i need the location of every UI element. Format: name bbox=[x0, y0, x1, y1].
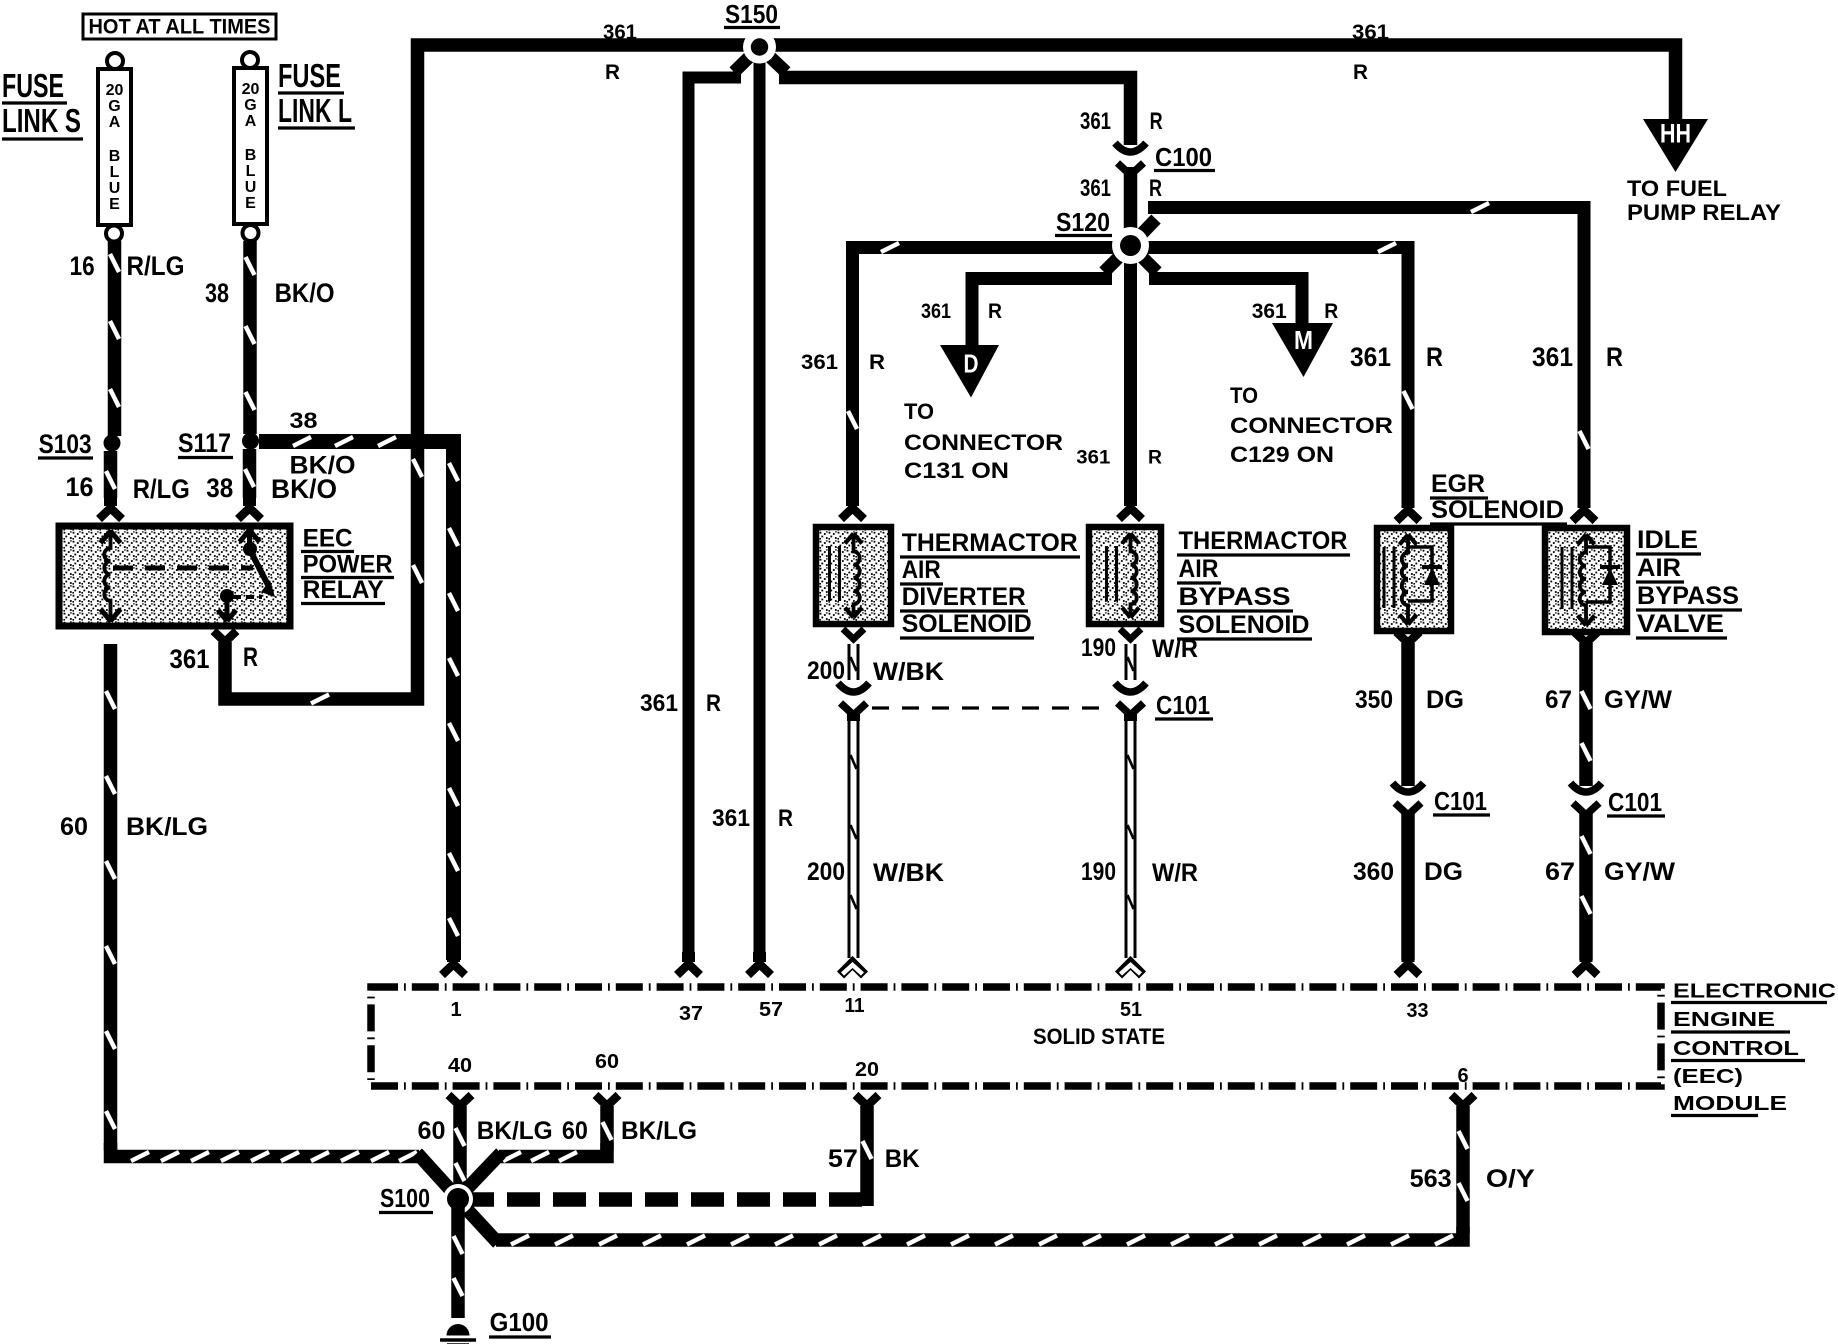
svg-text:L: L bbox=[246, 163, 256, 180]
wire 16 R/LG (S103 to relay) bbox=[99, 451, 122, 519]
wire S120 branch to EGR solenoid bbox=[1131, 243, 1420, 521]
svg-text:R: R bbox=[1148, 448, 1162, 469]
label 361 R (pin 37 wire) bbox=[640, 690, 721, 717]
label C101 (EGR) bbox=[1433, 786, 1490, 816]
label 38 BK/O lower bbox=[206, 473, 337, 504]
pin 57 label bbox=[759, 999, 783, 1021]
arrow HH to fuel pump relay bbox=[1643, 119, 1708, 173]
label 361 R (idle branch) bbox=[1532, 342, 1623, 372]
svg-text:60: 60 bbox=[562, 1117, 588, 1145]
svg-text:11: 11 bbox=[845, 995, 865, 1017]
component: EGR solenoid bbox=[1377, 528, 1451, 631]
label 60 BK/LG (pin 60) bbox=[562, 1117, 697, 1145]
wire S150 branch to EEC pin 37 bbox=[677, 47, 760, 975]
svg-text:38: 38 bbox=[206, 473, 233, 503]
svg-text:LINK S: LINK S bbox=[2, 102, 81, 139]
wire 190 W/R (bypass solenoid to EEC pin 51) bbox=[1119, 629, 1143, 975]
label 361 R (D branch) bbox=[921, 300, 1002, 323]
wire 563 O/Y (EEC pin 6 to S100) bbox=[461, 1095, 1475, 1243]
svg-text:D: D bbox=[964, 349, 979, 379]
svg-text:361: 361 bbox=[1532, 342, 1573, 372]
label S100 bbox=[379, 1183, 433, 1213]
svg-text:51: 51 bbox=[1120, 999, 1142, 1021]
svg-text:190: 190 bbox=[1081, 858, 1116, 886]
splice S103 bbox=[104, 435, 121, 452]
label THERMACTOR AIR DIVERTER SOLENOID bbox=[900, 529, 1080, 638]
svg-text:G100: G100 bbox=[490, 1307, 549, 1337]
svg-text:38: 38 bbox=[290, 408, 318, 433]
svg-text:RELAY: RELAY bbox=[303, 576, 384, 604]
svg-text:LINK L: LINK L bbox=[278, 92, 352, 129]
svg-text:190: 190 bbox=[1081, 634, 1116, 662]
svg-text:W/R: W/R bbox=[1152, 635, 1198, 663]
pin 37 label bbox=[679, 1003, 703, 1025]
svg-text:38: 38 bbox=[205, 278, 229, 308]
svg-text:16: 16 bbox=[66, 472, 94, 502]
svg-text:57: 57 bbox=[828, 1145, 858, 1173]
label 350 DG bbox=[1355, 686, 1464, 714]
svg-text:R: R bbox=[1426, 342, 1443, 372]
svg-text:CONNECTOR: CONNECTOR bbox=[1230, 413, 1393, 438]
svg-text:361: 361 bbox=[1080, 108, 1111, 135]
pin 1 label bbox=[450, 999, 461, 1021]
component: thermactor air diverter solenoid bbox=[816, 527, 891, 624]
wire S120 branch to connector C129 (M) bbox=[1131, 246, 1303, 325]
dashed link C101 to C101 bbox=[872, 706, 1108, 709]
connector C101 (200 W/BK) bbox=[838, 683, 869, 721]
svg-text:R: R bbox=[1149, 175, 1162, 202]
svg-text:S120: S120 bbox=[1056, 207, 1110, 237]
svg-text:563: 563 bbox=[1410, 1165, 1452, 1193]
svg-text:SOLENOID: SOLENOID bbox=[902, 610, 1032, 638]
svg-text:A: A bbox=[245, 113, 257, 130]
svg-text:37: 37 bbox=[679, 1003, 703, 1025]
svg-text:TO FUEL: TO FUEL bbox=[1627, 176, 1727, 201]
svg-text:W/R: W/R bbox=[1152, 859, 1198, 887]
svg-text:R: R bbox=[1150, 108, 1163, 135]
svg-text:BK/LG: BK/LG bbox=[621, 1117, 697, 1145]
wire 60 BK/LG (relay to S100, left tall run) bbox=[106, 644, 456, 1196]
svg-text:SOLID STATE: SOLID STATE bbox=[1033, 1024, 1165, 1049]
svg-text:361: 361 bbox=[1076, 448, 1110, 469]
hash marks on 563 O/Y run bbox=[511, 1236, 1453, 1245]
label FUSE LINK S bbox=[2, 67, 83, 139]
svg-text:TO: TO bbox=[1230, 383, 1258, 408]
wire 60 BK/LG (EEC pin 60 to S100) bbox=[460, 1095, 619, 1196]
svg-text:60: 60 bbox=[60, 813, 88, 841]
svg-text:B: B bbox=[109, 148, 121, 165]
svg-text:350: 350 bbox=[1355, 686, 1393, 714]
wire S120 branch to connector C131 (D) bbox=[972, 246, 1131, 346]
label 67 GY/W lower bbox=[1545, 858, 1675, 886]
svg-text:S100: S100 bbox=[380, 1183, 430, 1213]
svg-text:ELECTRONIC: ELECTRONIC bbox=[1673, 981, 1836, 1003]
splice S150 bbox=[743, 31, 776, 64]
svg-text:BK/LG: BK/LG bbox=[477, 1117, 553, 1145]
svg-text:R/LG: R/LG bbox=[133, 474, 190, 504]
svg-text:20: 20 bbox=[106, 82, 124, 99]
svg-text:C100: C100 bbox=[1155, 142, 1212, 172]
svg-text:BK: BK bbox=[885, 1145, 920, 1173]
svg-text:361: 361 bbox=[1350, 342, 1391, 372]
svg-text:B: B bbox=[245, 147, 257, 164]
label TO CONNECTOR C131 ON bbox=[904, 399, 1063, 483]
svg-text:1: 1 bbox=[450, 999, 461, 1021]
svg-text:EEC: EEC bbox=[303, 525, 353, 553]
svg-text:200: 200 bbox=[807, 657, 845, 685]
label TO FUEL PUMP RELAY bbox=[1627, 176, 1781, 225]
label IDLE AIR BYPASS VALVE bbox=[1636, 526, 1742, 638]
fuse link L (20 GA BLUE) bbox=[234, 52, 267, 241]
svg-text:S150: S150 bbox=[725, 0, 778, 29]
svg-text:20: 20 bbox=[855, 1059, 879, 1081]
svg-text:BK/O: BK/O bbox=[290, 452, 356, 480]
label BK/O (below 38 wire) bbox=[290, 452, 356, 480]
svg-text:TO: TO bbox=[904, 399, 934, 424]
svg-text:C129 ON: C129 ON bbox=[1230, 442, 1334, 467]
svg-text:FUSE: FUSE bbox=[278, 57, 341, 94]
svg-text:361: 361 bbox=[921, 300, 951, 323]
svg-text:S103: S103 bbox=[39, 429, 92, 459]
svg-text:R: R bbox=[869, 351, 885, 374]
label C101 (idle) bbox=[1607, 787, 1665, 817]
svg-text:IDLE: IDLE bbox=[1637, 526, 1698, 554]
label TO CONNECTOR C129 ON bbox=[1230, 383, 1393, 467]
label 57 BK bbox=[828, 1145, 920, 1173]
svg-text:361: 361 bbox=[1080, 175, 1111, 202]
EEC module dashed box bbox=[371, 987, 1661, 1086]
svg-text:CONTROL: CONTROL bbox=[1673, 1038, 1799, 1060]
wire S120 branch to thermactor air diverter solenoid bbox=[841, 243, 1131, 519]
pin 33 label bbox=[1407, 1000, 1429, 1022]
wire S120 branch to thermactor air bypass solenoid bbox=[1119, 246, 1142, 520]
pin 6 label bbox=[1457, 1065, 1468, 1087]
label S120 bbox=[1055, 207, 1112, 237]
label S150 bbox=[724, 0, 780, 29]
svg-text:R: R bbox=[1324, 300, 1338, 323]
label 361 R (diverter branch) bbox=[801, 351, 885, 374]
svg-text:PUMP RELAY: PUMP RELAY bbox=[1627, 200, 1781, 225]
svg-text:S117: S117 bbox=[178, 428, 231, 458]
splice S120 bbox=[1112, 227, 1149, 264]
svg-text:AIR: AIR bbox=[1179, 555, 1219, 583]
pin 60 label bbox=[595, 1051, 619, 1073]
label EGR SOLENOID bbox=[1430, 470, 1567, 524]
wire 38 BK/O (fuse L to S117) bbox=[246, 241, 255, 434]
label S117 bbox=[178, 428, 233, 458]
label SOLID STATE bbox=[1033, 1024, 1165, 1049]
label 361 R (top rail right) bbox=[1352, 21, 1389, 84]
svg-text:361: 361 bbox=[801, 351, 838, 374]
svg-text:67: 67 bbox=[1545, 858, 1575, 886]
svg-text:361: 361 bbox=[1252, 300, 1287, 323]
svg-text:AIR: AIR bbox=[902, 556, 941, 584]
svg-text:THERMACTOR: THERMACTOR bbox=[902, 529, 1078, 557]
label 38 (right of S117) bbox=[290, 408, 318, 433]
label 190 W/R lower bbox=[1081, 858, 1198, 887]
svg-text:67: 67 bbox=[1545, 686, 1572, 714]
label 67 GY/W upper bbox=[1545, 686, 1672, 714]
svg-text:G: G bbox=[108, 98, 120, 115]
wire BK (S100 to G100) bbox=[454, 1206, 463, 1318]
label 200 W/BK lower bbox=[807, 858, 944, 887]
svg-text:57: 57 bbox=[759, 999, 783, 1021]
svg-text:O/Y: O/Y bbox=[1486, 1165, 1535, 1193]
svg-text:HH: HH bbox=[1660, 119, 1691, 149]
svg-text:DG: DG bbox=[1424, 858, 1463, 886]
wire 38 BK/O (S117 to relay) bbox=[238, 449, 261, 519]
svg-text:(EEC): (EEC) bbox=[1673, 1066, 1743, 1088]
label 563 O/Y bbox=[1410, 1165, 1536, 1193]
label C101 (thermactor) bbox=[1155, 690, 1213, 720]
svg-text:BYPASS: BYPASS bbox=[1179, 583, 1291, 611]
svg-text:THERMACTOR: THERMACTOR bbox=[1179, 527, 1348, 555]
wire 16 R/LG (fuse S to S103) bbox=[110, 241, 119, 436]
svg-text:C101: C101 bbox=[1608, 787, 1662, 817]
label 361 R (M branch) bbox=[1252, 300, 1339, 323]
svg-text:C101: C101 bbox=[1434, 786, 1487, 816]
pin 11 label bbox=[845, 995, 865, 1017]
wire S120 branch to idle air bypass valve bbox=[1131, 203, 1596, 521]
svg-text:R: R bbox=[706, 690, 721, 717]
label ELECTRONIC ENGINE CONTROL (EEC) MODULE bbox=[1671, 981, 1836, 1116]
wire S150 branch to C100/S120 bbox=[760, 47, 1131, 145]
relay: EEC power relay (coil + contacts) bbox=[59, 526, 290, 626]
wire 200 W/BK (diverter solenoid to EEC pin 11) bbox=[841, 629, 865, 975]
svg-text:W/BK: W/BK bbox=[873, 658, 944, 686]
label 360 DG bbox=[1353, 858, 1463, 886]
label S103 bbox=[38, 429, 93, 459]
label 16 R/LG upper bbox=[70, 251, 185, 281]
svg-text:MODULE: MODULE bbox=[1673, 1093, 1787, 1115]
pin 51 label bbox=[1120, 999, 1142, 1021]
label 361 R (pin 57 wire) bbox=[712, 805, 793, 832]
svg-text:BK/LG: BK/LG bbox=[126, 813, 208, 841]
wire 361 R (C100 to S120) bbox=[1124, 167, 1138, 245]
svg-text:SOLENOID: SOLENOID bbox=[1179, 611, 1310, 639]
label 361 R (EGR branch) bbox=[1350, 342, 1443, 372]
label 200 W/BK upper bbox=[807, 657, 944, 686]
pin 40 label bbox=[448, 1055, 472, 1077]
svg-text:FUSE: FUSE bbox=[2, 67, 64, 104]
svg-text:U: U bbox=[245, 179, 257, 196]
svg-text:BK/O: BK/O bbox=[275, 278, 335, 308]
svg-text:361: 361 bbox=[170, 644, 210, 674]
label 60 BK/LG (left run) bbox=[60, 813, 208, 841]
svg-text:60: 60 bbox=[418, 1117, 446, 1145]
svg-text:DIVERTER: DIVERTER bbox=[902, 583, 1026, 611]
svg-text:U: U bbox=[109, 180, 121, 197]
label THERMACTOR AIR BYPASS SOLENOID bbox=[1177, 527, 1350, 639]
svg-text:40: 40 bbox=[448, 1055, 472, 1077]
svg-text:361: 361 bbox=[603, 21, 637, 44]
pin 20 label bbox=[855, 1059, 879, 1081]
arrow D to connector C131 bbox=[940, 345, 999, 398]
component: thermactor air bypass solenoid bbox=[1089, 527, 1161, 624]
svg-text:GY/W: GY/W bbox=[1604, 858, 1675, 886]
wire 38 BK/O (S117 to EEC pin 1) bbox=[259, 437, 465, 975]
wire 60 BK/LG (EEC pin 40 to S100) bbox=[449, 1095, 472, 1192]
svg-text:R: R bbox=[243, 642, 258, 672]
label 361 R (relay output) bbox=[170, 642, 259, 674]
connector C100 bbox=[1115, 143, 1146, 181]
svg-text:CONNECTOR: CONNECTOR bbox=[904, 430, 1063, 455]
svg-text:G: G bbox=[244, 97, 256, 114]
svg-text:R: R bbox=[778, 805, 793, 832]
splice S100 bbox=[443, 1184, 473, 1214]
label 38 BK/O upper bbox=[205, 278, 335, 308]
svg-text:R: R bbox=[605, 61, 620, 84]
svg-text:DG: DG bbox=[1426, 686, 1464, 714]
svg-text:W/BK: W/BK bbox=[873, 859, 944, 887]
label 361 R (bypass branch) bbox=[1076, 448, 1162, 469]
svg-text:BYPASS: BYPASS bbox=[1637, 582, 1739, 610]
svg-text:60: 60 bbox=[595, 1051, 619, 1073]
svg-text:EGR: EGR bbox=[1431, 470, 1485, 498]
svg-text:361: 361 bbox=[640, 690, 678, 717]
svg-text:VALVE: VALVE bbox=[1637, 610, 1724, 638]
svg-text:C101: C101 bbox=[1156, 690, 1210, 720]
svg-text:R: R bbox=[1606, 342, 1623, 372]
splice S117 bbox=[242, 433, 259, 450]
label 361 R (top rail left) bbox=[603, 21, 637, 84]
label 361 R (below C100) bbox=[1080, 175, 1162, 202]
wire S150 branch to EEC pin 57 bbox=[748, 47, 771, 975]
ground G100 bbox=[440, 1324, 476, 1344]
svg-text:GY/W: GY/W bbox=[1604, 686, 1672, 714]
arrow M to connector C129 bbox=[1272, 323, 1333, 377]
svg-text:200: 200 bbox=[807, 858, 845, 886]
svg-text:L: L bbox=[110, 164, 120, 181]
svg-text:361: 361 bbox=[712, 805, 750, 832]
label 361 R (above C100) bbox=[1080, 108, 1163, 135]
svg-text:20: 20 bbox=[242, 81, 260, 98]
connector C101 (DG wire) bbox=[1393, 783, 1424, 821]
wire 350 DG / 360 DG (EGR solenoid to EEC pin 33) bbox=[1397, 632, 1420, 975]
svg-text:R: R bbox=[988, 300, 1002, 323]
svg-text:SOLENOID: SOLENOID bbox=[1431, 496, 1564, 524]
fuse link S (20 GA BLUE) bbox=[98, 53, 131, 242]
component: idle air bypass valve bbox=[1545, 528, 1627, 632]
svg-text:M: M bbox=[1294, 325, 1313, 355]
svg-text:R: R bbox=[1353, 61, 1368, 84]
label 190 W/R upper bbox=[1081, 634, 1198, 663]
svg-text:HOT AT ALL TIMES: HOT AT ALL TIMES bbox=[89, 16, 271, 39]
svg-text:361: 361 bbox=[1352, 21, 1389, 44]
wire 361 R (relay to top rail to fuel pump relay) bbox=[214, 45, 1676, 704]
label: HOT AT ALL TIMES box bbox=[83, 14, 276, 39]
label G100 bbox=[489, 1307, 551, 1337]
svg-text:POWER: POWER bbox=[303, 550, 393, 578]
label C100 bbox=[1154, 142, 1215, 172]
connector C101 (GY/W wire) bbox=[1571, 783, 1602, 821]
svg-text:6: 6 bbox=[1457, 1065, 1468, 1087]
svg-text:E: E bbox=[109, 196, 120, 213]
label EEC POWER RELAY bbox=[301, 525, 394, 605]
wire 67 GY/W (idle air bypass valve to EEC) bbox=[1575, 632, 1598, 975]
svg-text:16: 16 bbox=[70, 251, 95, 281]
svg-text:R/LG: R/LG bbox=[127, 251, 185, 281]
label 16 R/LG lower bbox=[66, 472, 190, 504]
svg-text:AIR: AIR bbox=[1637, 554, 1681, 582]
svg-text:E: E bbox=[245, 195, 256, 212]
label FUSE LINK L bbox=[278, 57, 355, 129]
svg-text:33: 33 bbox=[1407, 1000, 1429, 1022]
label 60 BK/LG (pin 40) bbox=[418, 1117, 553, 1145]
connector C101 (190 W/R) bbox=[1115, 683, 1146, 721]
wire 57 BK (EEC pin 20 to S100, dashed run) bbox=[470, 1095, 879, 1206]
svg-text:360: 360 bbox=[1353, 858, 1394, 886]
svg-text:A: A bbox=[109, 114, 121, 131]
svg-text:C131 ON: C131 ON bbox=[904, 458, 1009, 483]
svg-text:ENGINE: ENGINE bbox=[1673, 1009, 1775, 1031]
